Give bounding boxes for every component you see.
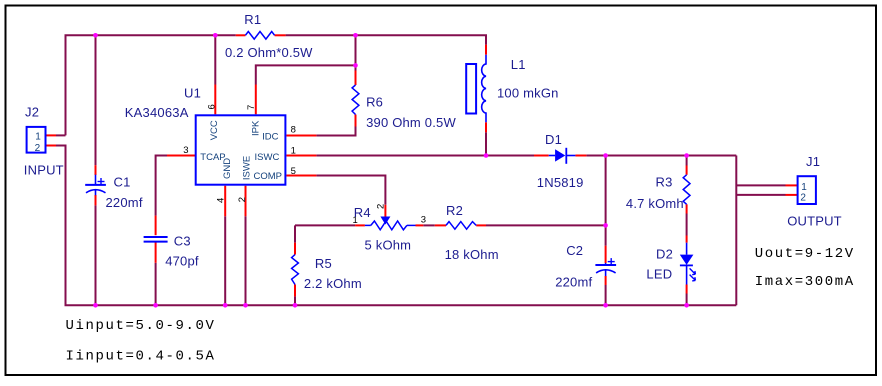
wire D2 top lead [686, 236, 688, 243]
svg-text:R3: R3 [656, 175, 673, 190]
wire R4 wiper lead [384, 205, 386, 217]
wire L1 top lead [485, 45, 487, 55]
wire R1 right lead [275, 34, 286, 36]
wire J2 pin1 red stub [45, 134, 56, 136]
wire R1 left lead [236, 34, 246, 36]
svg-text:IDC: IDC [262, 132, 279, 143]
wire pin8 red stub [286, 135, 316, 137]
wire top rail right [286, 35, 486, 44]
wire C2 top lead [605, 246, 607, 263]
wire pot to R2 [423, 224, 435, 226]
svg-text:2: 2 [800, 193, 806, 204]
wire R4 left lead [355, 224, 365, 226]
node C2 mid [603, 223, 608, 228]
wire J1 pin1 [736, 184, 785, 186]
svg-text:470pf: 470pf [165, 254, 199, 269]
svg-text:C1: C1 [114, 174, 131, 189]
node pin6 top [213, 33, 218, 38]
wire J1 pin1 red stub [786, 184, 798, 186]
svg-text:J1: J1 [806, 154, 820, 169]
wire R3 top lead [686, 166, 688, 175]
svg-text:LED: LED [646, 266, 672, 281]
wire R3 to D2 [686, 214, 688, 236]
wire pin3 to C3 [156, 156, 167, 216]
svg-text:100 mkGn: 100 mkGn [497, 86, 559, 101]
node C2 bottom [603, 303, 608, 308]
wire COMP to pot wiper [316, 176, 385, 205]
capacitor C2 [595, 258, 616, 276]
wire D1 left lead [534, 155, 549, 157]
wire pin6 red stub [214, 85, 216, 115]
wire J1 pin2 red stub [786, 194, 798, 196]
connector J1 [798, 176, 816, 204]
svg-text:3: 3 [421, 215, 426, 226]
wire pin3 red stub [167, 155, 195, 157]
node C3 bottom [153, 303, 158, 308]
svg-text:5 kOhm: 5 kOhm [365, 238, 412, 253]
svg-text:U1: U1 [184, 85, 201, 100]
resistor R6 [352, 85, 359, 115]
svg-text:D2: D2 [656, 247, 673, 262]
wire J2 pin2 red stub [45, 145, 56, 147]
svg-text:0.2 Ohm*0.5W: 0.2 Ohm*0.5W [225, 45, 313, 60]
op-amp U1 KA34063A box [196, 115, 286, 184]
node R6 pin7 [353, 63, 358, 68]
inductor L1 [466, 55, 486, 123]
wire pin4 red stub [224, 186, 226, 217]
svg-text:VCC: VCC [209, 120, 220, 140]
wire bottom rail [65, 304, 737, 306]
wire C1 bottom lead [95, 195, 97, 205]
wire L1 lower [485, 132, 487, 155]
wire pin4 down [224, 216, 226, 305]
capacitor C1 [85, 175, 106, 196]
wire C2 lower [605, 285, 607, 305]
svg-text:3: 3 [183, 145, 188, 156]
wire top rail left [66, 35, 236, 135]
svg-text:GND: GND [222, 158, 233, 179]
node C1 top [93, 33, 98, 38]
wire D1 right lead [575, 155, 586, 157]
node R3 top [684, 153, 689, 158]
svg-text:2: 2 [376, 204, 387, 209]
wire R5 lower [294, 296, 296, 305]
capacitor C3 [144, 237, 168, 242]
svg-text:KA34063A: KA34063A [125, 105, 189, 120]
node pin2 bottom [243, 303, 248, 308]
diode D1 [549, 148, 576, 164]
svg-text:2: 2 [237, 197, 248, 202]
node pin4 bottom [223, 303, 228, 308]
wire R6 upper [355, 35, 357, 70]
connector J2 [27, 127, 46, 154]
svg-text:C3: C3 [174, 233, 191, 248]
wire R5 upper [294, 225, 296, 242]
wire L1 bottom lead [485, 122, 487, 132]
wire R3 bottom lead [686, 204, 688, 213]
svg-text:4.7 kOmh: 4.7 kOmh [626, 196, 684, 211]
node C2 top [603, 153, 608, 158]
wire C2 bottom lead [605, 276, 607, 285]
node D2 bottom [684, 303, 689, 308]
svg-text:5: 5 [291, 166, 296, 177]
wire C1 top lead [95, 165, 97, 175]
node L1 switch [484, 153, 489, 158]
wire C3 bottom lead [155, 242, 157, 263]
wire R6 top lead [355, 71, 357, 86]
wire D2 lower [686, 294, 688, 306]
svg-text:Uout=9-12V: Uout=9-12V [755, 246, 855, 262]
svg-text:D1: D1 [545, 132, 562, 147]
svg-text:Imax=300mA: Imax=300mA [755, 274, 855, 290]
wire mid feedback left [295, 224, 355, 226]
svg-text:R6: R6 [366, 95, 383, 110]
wire R5 bottom lead [294, 285, 296, 297]
wire pin7 red stub [255, 85, 257, 115]
svg-text:2.2 kOhm: 2.2 kOhm [304, 276, 362, 291]
wire J2 pin2 riser down [56, 146, 66, 306]
wire C2 upper [605, 156, 607, 246]
svg-text:4: 4 [216, 198, 227, 203]
svg-text:390 Ohm 0.5W: 390 Ohm 0.5W [366, 115, 456, 130]
node C1 bottom [93, 303, 98, 308]
svg-text:R2: R2 [446, 203, 463, 218]
wire R2 left lead [435, 224, 446, 226]
wire C1 lower [95, 205, 97, 305]
svg-text:IPK: IPK [251, 120, 262, 136]
wire pin6 riser [214, 35, 216, 84]
wire pin2 down [245, 216, 247, 305]
wire C3 top lead [155, 216, 157, 236]
LED D2 [680, 243, 696, 285]
svg-text:1: 1 [801, 182, 807, 193]
svg-text:1N5819: 1N5819 [537, 175, 584, 190]
potentiometer R4 [365, 217, 416, 230]
svg-text:R1: R1 [244, 12, 261, 27]
wire C3 lower [155, 263, 157, 306]
wire pin2 red stub [245, 186, 247, 217]
svg-text:C2: C2 [566, 243, 583, 258]
svg-text:2: 2 [35, 143, 41, 154]
svg-text:Iinput=0.4-0.5A: Iinput=0.4-0.5A [66, 348, 216, 364]
svg-text:6: 6 [207, 104, 218, 109]
resistor R1 [245, 32, 274, 40]
svg-text:R5: R5 [315, 256, 332, 271]
wire D2 bottom lead [686, 285, 688, 294]
svg-text:R4: R4 [354, 205, 371, 220]
wire R6 bottom lead [355, 115, 357, 127]
svg-text:COMP: COMP [254, 171, 283, 182]
wire pin5 red stub [286, 175, 316, 177]
wire R4 right lead [416, 224, 424, 226]
wire R2 right lead [476, 224, 486, 226]
wire pin1 red stub [286, 155, 316, 157]
node R5 bottom [293, 303, 298, 308]
svg-text:220mf: 220mf [106, 195, 143, 210]
wire D1 to J1 riser [586, 155, 736, 157]
node R6 top [353, 33, 358, 38]
svg-text:1: 1 [35, 131, 41, 142]
svg-text:18 kOhm: 18 kOhm [445, 247, 499, 262]
resistor R2 [446, 222, 476, 230]
svg-text:1: 1 [291, 145, 296, 156]
svg-text:220mf: 220mf [555, 275, 592, 290]
svg-text:7: 7 [246, 105, 257, 110]
svg-text:ISWE: ISWE [241, 156, 252, 180]
wire R3 upper [686, 156, 688, 166]
wire J2 pin1 stub [56, 134, 66, 136]
wire C1 upper [95, 35, 97, 165]
wire R6 bottom to pin8 [316, 127, 355, 136]
svg-text:OUTPUT: OUTPUT [787, 214, 842, 229]
wire J1 pin2 [736, 194, 785, 196]
svg-text:J2: J2 [25, 104, 39, 119]
resistor R3 [683, 175, 690, 205]
wire R5 top lead [294, 243, 296, 255]
wire J1 riser [735, 156, 737, 306]
svg-text:Uinput=5.0-9.0V: Uinput=5.0-9.0V [66, 318, 216, 334]
wire pin7 to R6 node [256, 65, 356, 84]
svg-text:ISWC: ISWC [255, 152, 280, 163]
resistor R5 [292, 255, 299, 285]
svg-text:INPUT: INPUT [24, 163, 64, 178]
svg-text:L1: L1 [511, 57, 526, 72]
wire R2 to C2 node [486, 224, 606, 226]
wire switch node ISWC to D1 [316, 155, 534, 157]
svg-text:8: 8 [291, 125, 296, 136]
